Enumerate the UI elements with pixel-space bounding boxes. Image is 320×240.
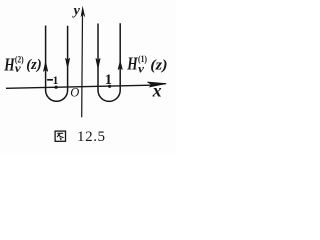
contour C1 (right U around +1) (98, 23, 120, 101)
contour C2 down-arrow on right leg (66, 58, 70, 67)
svg-text:ν: ν (15, 61, 22, 75)
node -1 dot (55, 86, 58, 89)
svg-text:x: x (152, 81, 162, 101)
svg-text:y: y (72, 4, 81, 19)
contour C2 (left U around -1) (46, 26, 68, 102)
svg-text:(z): (z) (150, 57, 167, 73)
caption hanzi TU (drawn) (55, 131, 65, 141)
label H_nu^(2)(z) left (3, 54, 41, 74)
svg-text:O: O (70, 86, 79, 100)
x-axis (6, 82, 166, 88)
svg-text:12.5: 12.5 (77, 129, 106, 145)
contour C1 up-arrow on right leg (118, 61, 122, 69)
svg-text:H: H (126, 54, 138, 74)
svg-text:ν: ν (138, 61, 145, 75)
node +1 dot (108, 85, 111, 88)
label H_nu^(1)(z) right (126, 54, 167, 76)
label -1 minus stroke (47, 79, 53, 81)
y-axis (81, 6, 86, 118)
svg-text:1: 1 (105, 72, 112, 88)
contour C2 up-arrow on left leg (44, 62, 48, 71)
svg-text:1: 1 (53, 75, 59, 87)
svg-text:(z): (z) (26, 57, 41, 73)
contour C1 down-arrow on left leg (96, 58, 100, 68)
svg-text:H: H (3, 54, 15, 74)
